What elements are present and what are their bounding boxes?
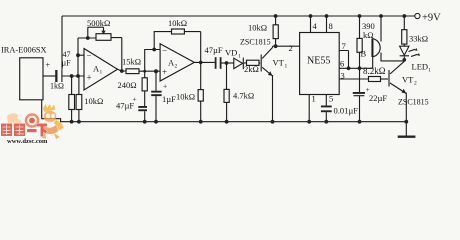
resistor R 1k xyxy=(71,76,73,95)
svg-text:+: + xyxy=(163,82,167,91)
svg-text:8.2kΩ: 8.2kΩ xyxy=(363,66,386,76)
svg-text:5: 5 xyxy=(329,94,333,104)
svg-text:1kΩ: 1kΩ xyxy=(50,82,64,91)
svg-text:8: 8 xyxy=(329,21,333,31)
svg-text:1: 1 xyxy=(100,70,103,76)
potentiometer RP 500k feedback xyxy=(78,37,96,39)
svg-text:10kΩ: 10kΩ xyxy=(84,96,103,106)
svg-text:1: 1 xyxy=(238,54,241,60)
diode VD1 xyxy=(234,58,243,68)
svg-text:VT: VT xyxy=(402,75,414,85)
LED1 xyxy=(400,46,409,55)
capacitor C 22uF xyxy=(359,68,361,92)
resistor R 10k input xyxy=(78,76,80,95)
capacitor C 47uF input xyxy=(43,75,56,77)
resistor R 8.2k xyxy=(369,77,381,82)
capacitor C 47uF coupling xyxy=(215,57,217,69)
svg-text:2: 2 xyxy=(289,43,293,53)
terminal +9V xyxy=(415,13,420,18)
svg-text:NE55: NE55 xyxy=(307,56,330,67)
wire pin8 xyxy=(326,16,328,33)
wire signal column to A1 minus xyxy=(77,38,79,76)
svg-text:7: 7 xyxy=(342,41,346,51)
svg-text:47µF: 47µF xyxy=(205,45,223,55)
capacitor C 0.01uF pin5 xyxy=(325,95,327,106)
svg-text:10kΩ: 10kΩ xyxy=(168,18,187,28)
svg-text:22µF: 22µF xyxy=(369,93,387,103)
node diode junction xyxy=(225,61,229,65)
wire ground bus xyxy=(42,100,407,122)
wire pin4 xyxy=(310,16,312,33)
svg-text:15kΩ: 15kΩ xyxy=(122,56,141,66)
svg-text:0.01µF: 0.01µF xyxy=(334,106,359,116)
svg-text:+: + xyxy=(46,61,51,70)
resistor R 10k A2 feedback xyxy=(154,32,171,50)
svg-text:VD: VD xyxy=(225,48,237,58)
svg-text:1µF: 1µF xyxy=(162,94,176,104)
svg-text:www.dzsc.com: www.dzsc.com xyxy=(7,138,48,144)
svg-text:33kΩ: 33kΩ xyxy=(409,34,428,44)
svg-text:µF: µF xyxy=(62,59,72,68)
svg-text:47µF: 47µF xyxy=(116,101,134,111)
svg-text:2: 2 xyxy=(175,64,178,70)
svg-text:ZSC1815: ZSC1815 xyxy=(240,38,271,47)
op-amp A1 xyxy=(84,49,118,91)
wire left rail drop to input cap xyxy=(61,16,63,70)
resistor R 10k pullup xyxy=(274,14,278,18)
resistor R 10k load xyxy=(200,62,202,89)
ground xyxy=(405,122,407,137)
wire top +9V rail xyxy=(62,15,415,17)
svg-text:2: 2 xyxy=(414,81,417,87)
resistor R 15k xyxy=(126,69,139,74)
buzzer B xyxy=(379,14,383,18)
wire pin3 xyxy=(339,78,368,80)
watermark logo xyxy=(1,104,64,145)
IC NE55 xyxy=(300,33,340,95)
svg-text:500kΩ: 500kΩ xyxy=(87,18,110,28)
svg-text:+: + xyxy=(87,73,92,83)
node A2 plus column xyxy=(143,70,146,73)
svg-text:1: 1 xyxy=(428,68,431,74)
resistor R 2k xyxy=(247,60,260,65)
resistor R 4.7k xyxy=(226,63,228,89)
sensor U IRA-E006SX xyxy=(20,58,43,100)
capacitor C 1uF xyxy=(155,71,157,91)
wire pin2 xyxy=(273,45,300,47)
svg-text:ZSC1815: ZSC1815 xyxy=(398,98,429,107)
svg-text:LED: LED xyxy=(412,62,429,72)
wire A1 output xyxy=(118,69,127,71)
resistor R 390k xyxy=(358,14,362,18)
transistor VT1 xyxy=(260,55,262,72)
transistor VT2 xyxy=(388,70,390,87)
resistor R 33k xyxy=(402,14,406,18)
wire pin6 xyxy=(339,67,373,69)
svg-text:IRA-E006SX: IRA-E006SX xyxy=(1,46,47,55)
capacitor C 47uF gain xyxy=(144,91,146,106)
svg-text:1: 1 xyxy=(285,64,288,70)
svg-text:VT: VT xyxy=(273,58,285,68)
wire A2 minus loop xyxy=(145,50,160,72)
svg-text:B: B xyxy=(361,49,367,59)
svg-text:4.7kΩ: 4.7kΩ xyxy=(233,91,254,101)
svg-text:2kΩ: 2kΩ xyxy=(244,64,259,74)
svg-text:240Ω: 240Ω xyxy=(118,80,137,90)
svg-text:+: + xyxy=(162,67,167,77)
svg-text:+9V: +9V xyxy=(422,13,441,24)
wire A2 output xyxy=(194,61,214,63)
wire pin7 xyxy=(339,51,348,69)
svg-text:10kΩ: 10kΩ xyxy=(248,23,267,33)
svg-text:−: − xyxy=(87,51,92,61)
node input junction dots xyxy=(70,74,74,78)
svg-text:−: − xyxy=(162,45,167,55)
svg-text:6: 6 xyxy=(340,59,344,69)
svg-text:1: 1 xyxy=(312,94,316,104)
svg-text:10kΩ: 10kΩ xyxy=(176,92,195,102)
op-amp A2 xyxy=(160,44,194,81)
wire pin1 xyxy=(308,95,310,122)
resistor R 240 xyxy=(144,71,146,78)
